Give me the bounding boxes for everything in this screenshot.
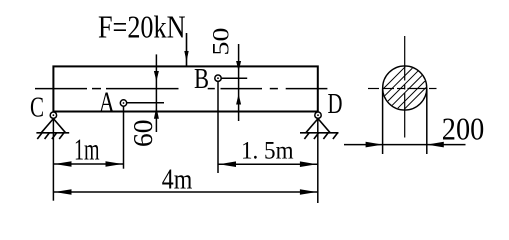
svg-text:50: 50 <box>209 28 235 56</box>
cross-section horizontal centerline <box>368 88 437 90</box>
svg-text:1. 5m: 1. 5m <box>241 138 294 165</box>
dimension 4m line <box>53 191 317 193</box>
svg-text:4m: 4m <box>162 165 193 196</box>
support C pin circle <box>50 112 56 118</box>
support D extension line down <box>317 112 319 204</box>
dimension 50 line <box>238 44 240 121</box>
force F arrow <box>186 33 188 66</box>
svg-text:D: D <box>328 89 343 120</box>
point B circle <box>215 75 221 81</box>
dimension 200 extension lines <box>382 89 384 155</box>
dimension 1m line <box>53 163 123 165</box>
cross-section hatching <box>383 67 426 110</box>
support D pin circle <box>315 112 321 118</box>
dimension 60 line <box>155 54 157 132</box>
support D (pin) <box>300 119 339 139</box>
svg-text:1m: 1m <box>74 132 100 166</box>
svg-text:60: 60 <box>128 120 158 148</box>
beam centerline (dash-dot) <box>35 88 327 90</box>
svg-text:A: A <box>99 87 115 119</box>
beam outline <box>53 66 317 111</box>
svg-text:B: B <box>194 63 209 95</box>
dimension 1.5m line <box>218 163 318 165</box>
point A circle <box>120 100 126 106</box>
support C extension line down <box>52 112 54 201</box>
svg-text:200: 200 <box>442 112 485 147</box>
cross-section circle <box>383 66 427 110</box>
point A extension line down <box>123 106 125 169</box>
dimension 200 line <box>344 144 466 146</box>
point B extension line down <box>217 81 219 173</box>
support C (pin) <box>36 119 69 139</box>
svg-text:C: C <box>30 92 44 123</box>
point B leader line right <box>221 77 247 79</box>
point A leader line right <box>127 102 164 104</box>
svg-text:F=20kN: F=20kN <box>98 8 186 44</box>
cross-section vertical centerline <box>404 36 406 138</box>
